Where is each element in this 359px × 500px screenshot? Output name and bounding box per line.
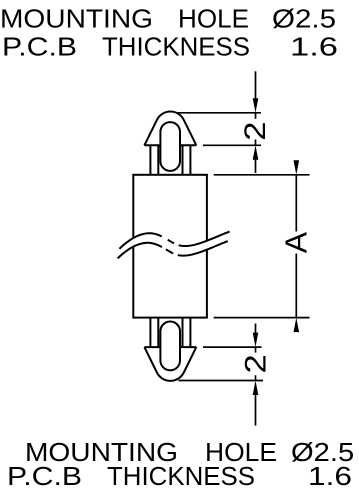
down arrowhead at bottom ledge line: [253, 333, 259, 348]
leader arrowhead (down) at latch tip extension line: [253, 98, 259, 113]
leader line from top note: [255, 71, 257, 100]
svg-text:Ø2.5: Ø2.5: [272, 4, 336, 34]
extension line at top barb ledge: [203, 144, 261, 146]
dim stub below bottom ledge line: [255, 347, 257, 353]
top snap latch: [144, 112, 196, 175]
top latch dome outline: [144, 347, 196, 381]
extension line at top latch tip: [178, 112, 262, 114]
svg-text:1.6: 1.6: [290, 32, 338, 62]
break line lower curve: [118, 241, 228, 258]
svg-text:MOUNTING: MOUNTING: [0, 4, 153, 34]
top latch barb ledge left: [144, 144, 160, 146]
up arrowhead at bottom latch tip line: [253, 381, 259, 396]
dim stub below tip line: [255, 113, 257, 119]
top latch slot (capsule): [160, 122, 180, 171]
note: bottom line 1 'MOUNTING HOLE Ø2.5': [25, 437, 354, 467]
note: top line 1 'MOUNTING HOLE Ø2.5': [0, 4, 336, 34]
note: top line 2 'P.C.B THICKNESS 1.6': [2, 32, 338, 62]
dimension line A upper part: [295, 175, 297, 232]
extension line at bottom latch tip: [179, 380, 264, 382]
break line erase band: [119, 236, 229, 253]
extension line at body bottom: [214, 317, 310, 319]
svg-text:2: 2: [240, 354, 273, 373]
svg-text:A: A: [279, 232, 314, 254]
break line upper curve: [119, 232, 229, 249]
dim stub above bottom tip line: [255, 375, 257, 380]
dim stub above ledge line: [255, 140, 257, 146]
arrowhead down at body bottom (A): [294, 318, 300, 333]
top latch barb ledge right: [180, 346, 196, 348]
dimension line A lower part: [295, 254, 297, 318]
svg-text:P.C.B: P.C.B: [7, 461, 82, 491]
top latch barb ledge right: [180, 144, 196, 146]
svg-text:1.6: 1.6: [308, 461, 352, 491]
extension line at body top: [214, 174, 310, 176]
svg-text:THICKNESS: THICKNESS: [102, 32, 250, 62]
extension line at bottom barb ledge: [203, 346, 262, 348]
up arrowhead at top ledge line: [253, 145, 259, 160]
top latch barb ledge left: [144, 346, 160, 348]
tail of down arrow (bottom 2 dim): [255, 324, 257, 336]
spacer body rectangle: [133, 175, 207, 318]
leader line to bottom note: [255, 393, 257, 426]
svg-text:2: 2: [239, 122, 272, 141]
top latch slot (capsule): [160, 322, 180, 371]
top latch neck lines: [149, 318, 151, 348]
svg-text:P.C.B: P.C.B: [2, 32, 77, 62]
arrowhead up at body top (A): [294, 160, 300, 175]
note: bottom line 2 'P.C.B THICKNESS 1.6': [7, 461, 352, 491]
top latch dome outline: [144, 112, 196, 146]
svg-text:HOLE: HOLE: [178, 4, 249, 34]
svg-text:THICKNESS: THICKNESS: [107, 461, 255, 491]
tail of up arrow (top 2 dim): [255, 158, 257, 174]
bottom snap latch (mirrored): [144, 318, 196, 381]
top latch neck lines: [149, 145, 151, 175]
